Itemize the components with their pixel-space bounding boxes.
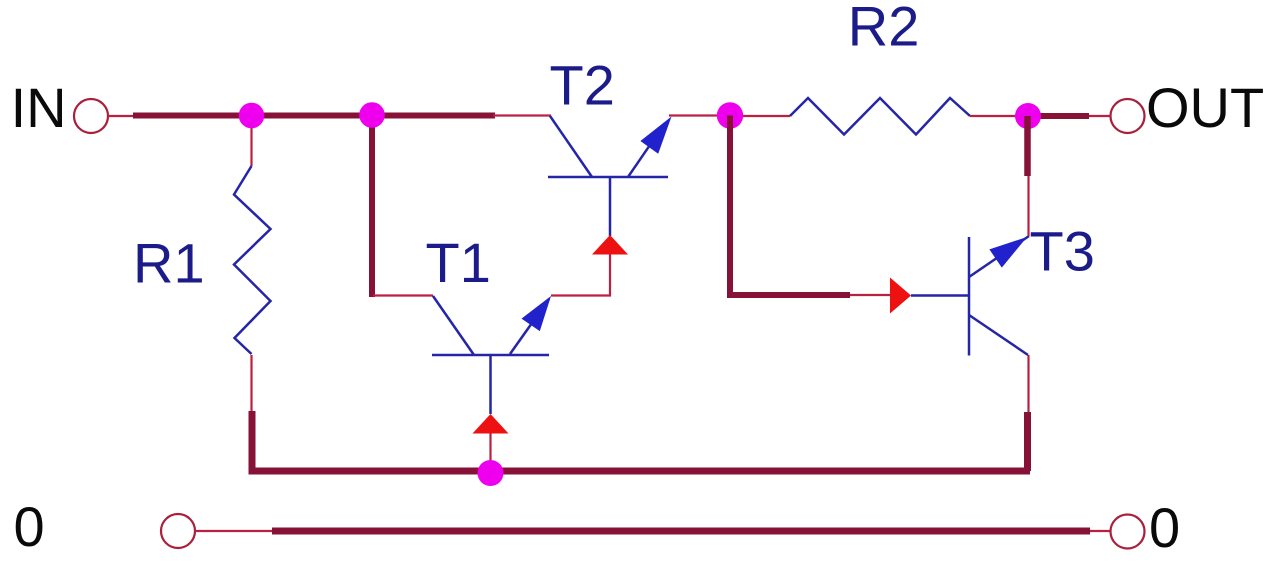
terminal OUT [1111, 99, 1145, 133]
wire: J1 down to R1 (thin) [250, 116, 252, 166]
resistor R1 [234, 166, 271, 354]
wire: top rail to T2 collector (thin) [493, 114, 551, 116]
terminal IN [74, 99, 108, 133]
svg-text:T2: T2 [550, 54, 615, 117]
wire: T2 base to T1 emitter (thin) [551, 254, 610, 296]
terminal GND right [1111, 515, 1145, 549]
transistor T3 emitter arrow [989, 237, 1027, 268]
wire: J4 down (thick) [1024, 116, 1031, 176]
wire: OUT terminal stub (thin) [1089, 115, 1110, 117]
node J2 [359, 102, 385, 128]
wire: to T3 base arrow (thin) [850, 294, 890, 296]
wire: T2 emitter to node J3 (thin) [669, 114, 731, 116]
svg-text:T1: T1 [426, 231, 491, 294]
wire: R2 to J4 (thin) [970, 115, 1029, 117]
wire: inner bottom rail (thick) [250, 468, 1030, 475]
node J4 [1015, 103, 1041, 129]
current arrow at T1 base [473, 414, 509, 434]
terminal GND left [161, 514, 195, 548]
svg-text:T3: T3 [1030, 219, 1095, 282]
svg-text:R1: R1 [133, 232, 205, 295]
svg-text:IN: IN [11, 76, 67, 139]
current arrow at T2 base [592, 235, 628, 255]
current arrow at T3 base [890, 278, 911, 314]
wire: GND right stub (thin) [1090, 530, 1110, 532]
wire: T1 base down to J5 (thin) [489, 433, 491, 462]
transistor T2 [548, 116, 668, 236]
wire: J2 down to T1 (thick) [369, 115, 375, 297]
node J3 [717, 102, 743, 128]
wire: outer bottom rail (thick) [272, 528, 1090, 535]
svg-text:0: 0 [14, 495, 45, 558]
wire: R1 down to corner (thin) [250, 355, 252, 412]
node J5 [478, 460, 504, 486]
svg-text:OUT: OUT [1146, 76, 1264, 139]
wire: J3 down and right to T3 base (thick) [730, 116, 850, 296]
wire: J3 to R2 (thin) [730, 115, 790, 117]
wire: left bottom elbow (thick) [252, 411, 500, 471]
resistor R2 [790, 98, 970, 135]
transistor T2 emitter arrow [640, 117, 671, 154]
transistor T3 [911, 236, 1029, 356]
wire: to T1 collector (thin) [373, 294, 433, 296]
wire: right bottom elbow (thick) [1024, 412, 1031, 471]
svg-text:0: 0 [1149, 496, 1180, 559]
wire: T3 collector up (thin) [1027, 175, 1029, 236]
wire: top rail left (thick) [133, 113, 495, 119]
wire: T3 emitter down (thin) [1027, 355, 1029, 413]
node J1 [239, 103, 265, 129]
transistor T1 [432, 296, 549, 414]
wire: IN terminal stub (thin) [108, 115, 134, 117]
svg-text:R2: R2 [848, 0, 920, 57]
wire: GND left stub (thin) [195, 530, 273, 532]
transistor T1 emitter arrow [522, 296, 552, 331]
wire: J4 to OUT (thick) [1028, 113, 1089, 119]
